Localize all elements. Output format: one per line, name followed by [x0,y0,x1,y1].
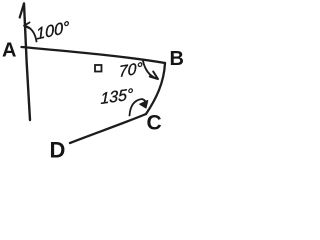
svg-text:C: C [147,112,162,135]
segment BC [146,63,165,114]
svg-text:D: D [50,138,66,163]
svg-text:A: A [2,40,16,62]
angle arc at A (100°) [25,26,37,42]
svg-text:70°: 70° [119,59,144,81]
svg-text:100°: 100° [35,17,70,43]
small square symbol [95,65,102,72]
segment CD [70,114,146,143]
angle arc at B (70°) [143,61,157,79]
arrowhead barb at top of ray [20,4,24,18]
svg-text:B: B [170,48,184,70]
ray from A upward (vertical line) [24,4,30,121]
arrowhead of arc at B [150,72,158,80]
segment AB [22,47,166,63]
arrowhead of arc at A [24,23,30,29]
angle arc at C (135°) [130,99,147,116]
svg-text:135°: 135° [101,85,134,108]
arrowhead of arc at C [140,101,148,108]
